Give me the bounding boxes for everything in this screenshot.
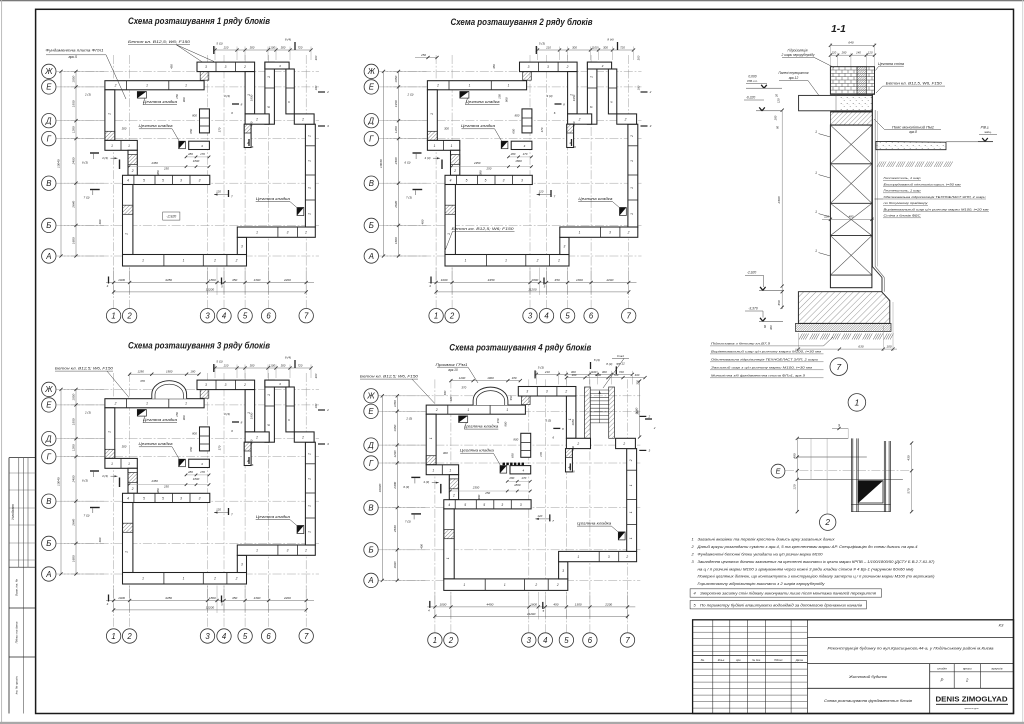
- svg-text:1: 1: [506, 408, 508, 412]
- svg-text:1950: 1950: [72, 418, 76, 425]
- svg-text:2: 2: [630, 135, 634, 138]
- svg-text:1800: 1800: [193, 159, 200, 163]
- svg-text:6 (3): 6 (3): [403, 485, 409, 489]
- svg-text:5: 5: [162, 497, 164, 501]
- svg-text:150: 150: [497, 94, 501, 99]
- svg-text:Вирівнювальний шар ц/п розчину: Вирівнювальний шар ц/п розчину марки М10…: [884, 207, 990, 211]
- svg-text:300: 300: [444, 126, 449, 130]
- svg-text:арк.12: арк.12: [789, 76, 799, 80]
- svg-text:2640: 2640: [72, 519, 76, 527]
- svg-text:2: 2: [453, 169, 456, 173]
- svg-text:180: 180: [190, 370, 195, 374]
- svg-text:1: 1: [504, 583, 506, 587]
- svg-text:6: 6: [266, 312, 271, 321]
- svg-text:Е: Е: [368, 407, 374, 416]
- svg-text:5: 5: [466, 179, 468, 183]
- svg-text:аркуш: аркуш: [963, 666, 972, 670]
- svg-text:1: 1: [267, 76, 271, 78]
- svg-text:800: 800: [192, 431, 197, 435]
- svg-text:-3,370: -3,370: [748, 307, 758, 311]
- svg-text:2: 2: [114, 402, 117, 406]
- svg-text:1: 1: [128, 462, 130, 466]
- svg-text:Пояс монолітний Пм1: Пояс монолітний Пм1: [892, 125, 934, 129]
- svg-text:2: 2: [536, 259, 539, 263]
- svg-text:630: 630: [858, 345, 863, 349]
- svg-text:170: 170: [218, 445, 222, 450]
- svg-text:1: 1: [577, 555, 579, 559]
- svg-text:Бетон кл. В12,5; W6; F150: Бетон кл. В12,5; W6; F150: [452, 227, 514, 231]
- svg-text:Цегляна стіна: Цегляна стіна: [878, 62, 904, 66]
- svg-text:720: 720: [298, 363, 303, 367]
- svg-text:Цегляна кладка: Цегляна кладка: [460, 448, 494, 452]
- svg-text:Узгоджено: Узгоджено: [11, 504, 15, 520]
- svg-text:Цегляна кладка: Цегляна кладка: [256, 197, 290, 201]
- svg-text:2: 2: [126, 312, 132, 321]
- svg-text:Б: Б: [46, 539, 51, 548]
- svg-text:3: 3: [546, 390, 548, 394]
- svg-text:720: 720: [620, 45, 625, 49]
- svg-text:380: 380: [478, 170, 482, 175]
- svg-text:4: 4: [544, 312, 549, 321]
- svg-text:210: 210: [544, 370, 550, 374]
- svg-text:1800: 1800: [193, 477, 200, 481]
- svg-text:300: 300: [314, 373, 318, 378]
- svg-text:Поверхні цегляних ділянок, що: Поверхні цегляних ділянок, що контактуют…: [698, 574, 936, 579]
- svg-text:1100: 1100: [269, 45, 276, 49]
- svg-text:2 (3): 2 (3): [84, 92, 91, 96]
- svg-text:3: 3: [564, 245, 566, 249]
- svg-text:Горизонтальну гідроізоляцію ви: Горизонтальну гідроізоляцію виконати з 2…: [698, 581, 826, 586]
- svg-text:180: 180: [314, 85, 318, 90]
- svg-text:4: 4: [222, 632, 227, 641]
- svg-text:1: 1: [183, 259, 185, 263]
- svg-text:1: 1: [463, 583, 465, 587]
- svg-text:А: А: [45, 252, 51, 261]
- svg-text:1000: 1000: [118, 596, 125, 600]
- svg-text:2400: 2400: [394, 157, 398, 165]
- svg-text:Цегляна кладка: Цегляна кладка: [143, 418, 177, 422]
- svg-text:1: 1: [815, 249, 817, 253]
- svg-text:210: 210: [223, 45, 229, 49]
- svg-text:450: 450: [553, 603, 558, 607]
- svg-text:1: 1: [146, 84, 148, 88]
- svg-text:3: 3: [199, 179, 201, 183]
- svg-text:450: 450: [555, 278, 560, 282]
- svg-text:2: 2: [126, 632, 132, 641]
- svg-text:3: 3: [528, 312, 533, 321]
- svg-text:250: 250: [484, 491, 490, 495]
- svg-text:1600: 1600: [393, 561, 397, 568]
- svg-text:1: 1: [111, 632, 115, 641]
- svg-text:Закладення цегляних ділянок за: Закладення цегляних ділянок зазначених н…: [698, 559, 936, 564]
- svg-text:2400: 2400: [777, 196, 781, 204]
- svg-text:300: 300: [122, 444, 127, 448]
- svg-text:3: 3: [287, 231, 289, 235]
- svg-text:720: 720: [614, 373, 619, 377]
- svg-text:арк.8: арк.8: [909, 130, 917, 134]
- svg-text:450: 450: [232, 596, 237, 600]
- svg-text:11200: 11200: [528, 288, 537, 292]
- svg-text:2: 2: [255, 436, 258, 440]
- svg-text:210: 210: [545, 45, 551, 49]
- svg-text:зміщ.: зміщ.: [983, 130, 992, 134]
- svg-text:1600: 1600: [394, 237, 398, 244]
- svg-text:260: 260: [841, 51, 847, 55]
- svg-text:280: 280: [187, 152, 193, 156]
- svg-text:4450: 4450: [165, 278, 172, 282]
- svg-text:300: 300: [443, 451, 448, 455]
- svg-text:1900: 1900: [487, 376, 494, 380]
- svg-text:450: 450: [250, 121, 254, 126]
- svg-text:1: 1: [449, 468, 451, 472]
- svg-text:120: 120: [216, 508, 221, 512]
- svg-text:7: 7: [304, 312, 309, 321]
- svg-text:2: 2: [653, 426, 656, 430]
- svg-text:11200: 11200: [206, 606, 215, 610]
- svg-text:Приямок ГРм1: Приямок ГРм1: [436, 363, 468, 367]
- svg-text:1950: 1950: [250, 94, 254, 101]
- svg-text:1000: 1000: [441, 278, 448, 282]
- svg-text:1: 1: [429, 437, 433, 439]
- svg-text:6: 6: [266, 632, 271, 641]
- svg-text:1200: 1200: [393, 450, 397, 457]
- svg-text:2: 2: [114, 84, 117, 88]
- svg-text:2: 2: [534, 583, 537, 587]
- svg-text:1: 1: [629, 537, 633, 539]
- svg-text:1: 1: [432, 468, 434, 472]
- svg-text:2: 2: [235, 259, 238, 263]
- svg-text:2 (3): 2 (3): [405, 417, 412, 421]
- svg-text:170: 170: [200, 152, 205, 156]
- svg-text:300: 300: [572, 373, 577, 377]
- svg-text:Житловий будинок: Житловий будинок: [848, 674, 888, 679]
- svg-text:450: 450: [571, 446, 575, 451]
- svg-text:2: 2: [624, 118, 627, 122]
- svg-text:Бетон кл. В12,5; W6; F150: Бетон кл. В12,5; W6; F150: [128, 40, 190, 44]
- svg-text:400: 400: [419, 544, 423, 549]
- svg-text:Загальні вказівки та перелік к: Загальні вказівки та перелік креслень ди…: [698, 537, 836, 542]
- svg-text:1: 1: [629, 484, 633, 486]
- svg-text:Бетон кл. В12,5; W6, F150: Бетон кл. В12,5; W6, F150: [55, 367, 113, 371]
- svg-text:9: 9: [838, 424, 840, 428]
- svg-text:120: 120: [449, 396, 453, 401]
- svg-text:1200: 1200: [72, 126, 76, 133]
- svg-text:Ж: Ж: [367, 67, 376, 76]
- svg-text:Зм.: Зм.: [701, 658, 705, 662]
- svg-text:2: 2: [629, 459, 633, 462]
- svg-text:1290: 1290: [137, 370, 144, 374]
- svg-text:150: 150: [496, 418, 500, 423]
- svg-text:2200: 2200: [605, 278, 613, 282]
- svg-text:1: 1: [125, 233, 129, 235]
- svg-text:Геотекстиль, 1 шар: Геотекстиль, 1 шар: [884, 176, 921, 180]
- svg-text:280: 280: [508, 476, 514, 480]
- svg-text:5: 5: [143, 179, 145, 183]
- svg-text:250: 250: [485, 167, 491, 171]
- svg-text:120: 120: [777, 98, 781, 103]
- svg-text:1: 1: [447, 233, 451, 235]
- svg-text:4450: 4450: [488, 278, 495, 282]
- svg-text:480: 480: [443, 390, 447, 395]
- svg-text:3: 3: [547, 65, 549, 69]
- svg-text:2: 2: [131, 169, 134, 173]
- svg-text:Підготовка з бетону кл.В7,5: Підготовка з бетону кл.В7,5: [711, 342, 770, 346]
- svg-text:1: 1: [815, 171, 817, 175]
- svg-text:380: 380: [477, 494, 481, 499]
- svg-text:480: 480: [792, 453, 796, 458]
- svg-text:1: 1: [815, 210, 817, 214]
- svg-text:проектна група: проектна група: [964, 708, 979, 710]
- svg-text:1: 1: [855, 398, 860, 408]
- svg-text:В: В: [46, 179, 51, 188]
- svg-text:450: 450: [572, 121, 576, 126]
- svg-text:на ц / п розчині марки М100 з: на ц / п розчині марки М100 з армуванням…: [698, 566, 915, 571]
- svg-text:1: 1: [505, 259, 507, 263]
- svg-text:1: 1: [467, 408, 469, 412]
- svg-text:720: 720: [298, 45, 303, 49]
- svg-text:Б: Б: [369, 221, 374, 230]
- svg-text:В: В: [369, 179, 374, 188]
- svg-text:2: 2: [564, 390, 567, 394]
- svg-text:1: 1: [142, 259, 144, 263]
- svg-text:800: 800: [192, 113, 197, 117]
- svg-text:8 (4): 8 (4): [285, 356, 291, 360]
- svg-text:2: 2: [301, 436, 304, 440]
- svg-text:1000: 1000: [118, 278, 125, 282]
- svg-text:Г: Г: [369, 134, 374, 143]
- svg-text:720: 720: [619, 370, 624, 374]
- svg-text:170: 170: [218, 127, 222, 132]
- svg-text:2: 2: [243, 65, 246, 69]
- svg-text:2: 2: [649, 90, 652, 94]
- svg-text:1600: 1600: [72, 555, 76, 562]
- svg-text:2: 2: [449, 312, 455, 321]
- svg-text:450: 450: [232, 278, 237, 282]
- svg-text:170: 170: [523, 152, 528, 156]
- svg-text:Реконструкція будинку по вул.К: Реконструкція будинку по вул.Красицького…: [828, 647, 994, 651]
- svg-text:1900: 1900: [166, 370, 173, 374]
- svg-text:стадія: стадія: [937, 666, 947, 670]
- svg-text:1050: 1050: [72, 75, 76, 82]
- svg-text:3: 3: [520, 503, 522, 507]
- svg-text:Стіна з блоків ФБС: Стіна з блоків ФБС: [884, 214, 922, 218]
- svg-text:10040: 10040: [379, 159, 383, 168]
- svg-text:2400: 2400: [393, 482, 397, 490]
- svg-text:3: 3: [528, 65, 530, 69]
- svg-text:А: А: [368, 252, 374, 261]
- svg-text:11200: 11200: [527, 612, 536, 616]
- svg-text:1: 1: [815, 130, 817, 134]
- svg-text:1000: 1000: [439, 603, 446, 607]
- svg-text:Геотекстиль, 1 шар: Геотекстиль, 1 шар: [884, 189, 921, 193]
- svg-text:1800: 1800: [515, 159, 522, 163]
- svg-text:6: 6: [267, 424, 271, 426]
- svg-text:480: 480: [849, 215, 854, 219]
- svg-text:300: 300: [122, 126, 127, 130]
- svg-text:2350: 2350: [150, 479, 158, 483]
- svg-text:4 (3): 4 (3): [423, 480, 429, 484]
- svg-text:2: 2: [301, 118, 304, 122]
- svg-text:№ док.: № док.: [752, 658, 761, 662]
- svg-text:7 (3): 7 (3): [84, 513, 90, 517]
- svg-text:-2,920: -2,920: [747, 270, 757, 274]
- svg-text:120: 120: [539, 190, 544, 194]
- svg-text:180: 180: [637, 85, 641, 90]
- svg-text:1-1: 1-1: [831, 24, 846, 35]
- svg-text:4: 4: [127, 179, 129, 183]
- svg-text:Обклеювальна гідроізоляція ТЕХ: Обклеювальна гідроізоляція ТЕХНОЕЛАСТ ЭП…: [711, 358, 818, 362]
- svg-text:По периметру будівлі влаштуват: По периметру будівлі влаштувати водовідв…: [700, 602, 862, 607]
- svg-text:900: 900: [503, 421, 507, 426]
- svg-text:1100: 1100: [595, 373, 601, 377]
- svg-text:Кільк.: Кільк.: [718, 658, 725, 662]
- svg-text:2: 2: [436, 84, 439, 88]
- svg-text:3: 3: [287, 549, 289, 553]
- svg-text:900: 900: [505, 97, 509, 102]
- svg-text:2400: 2400: [72, 157, 76, 165]
- svg-text:300: 300: [314, 55, 318, 60]
- svg-text:Д: Д: [367, 441, 374, 450]
- svg-text:2350: 2350: [150, 161, 158, 165]
- svg-text:450: 450: [492, 64, 496, 69]
- svg-text:2640: 2640: [393, 525, 397, 533]
- svg-text:Цегляна кладка: Цегляна кладка: [139, 442, 173, 446]
- svg-text:2: 2: [557, 259, 560, 263]
- svg-text:8 (4): 8 (4): [594, 358, 600, 362]
- svg-text:А: А: [45, 570, 51, 579]
- svg-text:300: 300: [281, 363, 286, 367]
- svg-text:380: 380: [156, 488, 160, 493]
- svg-text:5: 5: [565, 312, 570, 321]
- svg-text:Д: Д: [368, 117, 375, 126]
- svg-text:Бетон кл. В12,5; W6, F150: Бетон кл. В12,5; W6, F150: [360, 375, 418, 379]
- svg-text:5: 5: [243, 632, 248, 641]
- svg-text:400: 400: [635, 373, 640, 377]
- svg-text:2: 2: [308, 453, 312, 456]
- svg-text:Підпис та дата: Підпис та дата: [15, 621, 19, 643]
- svg-text:1: 1: [111, 312, 115, 321]
- svg-text:1: 1: [142, 577, 144, 581]
- svg-text:3: 3: [241, 563, 243, 567]
- svg-text:Бетон кл. В12,5, W6, F150: Бетон кл. В12,5, W6, F150: [886, 82, 942, 86]
- svg-text:В: В: [368, 503, 373, 512]
- svg-text:6 (3): 6 (3): [82, 479, 88, 483]
- svg-text:Обклеювальна гідроізоляція ТЕХ: Обклеювальна гідроізоляція ТЕХНОЕЛАСТ ЭП…: [884, 195, 986, 199]
- svg-text:-2,920: -2,920: [166, 214, 176, 218]
- svg-text:Дата: Дата: [795, 658, 804, 662]
- svg-text:2640: 2640: [72, 201, 76, 209]
- svg-text:1950: 1950: [572, 94, 576, 101]
- svg-text:4 (3): 4 (3): [102, 474, 108, 478]
- svg-text:4450: 4450: [165, 596, 172, 600]
- svg-text:5 (3): 5 (3): [538, 366, 544, 370]
- svg-text:3: 3: [608, 555, 610, 559]
- svg-text:170: 170: [539, 452, 543, 457]
- svg-text:Цегляна кладка: Цегляна кладка: [256, 515, 290, 519]
- svg-text:120: 120: [868, 51, 873, 55]
- svg-text:5: 5: [485, 179, 487, 183]
- svg-text:1: 1: [185, 402, 187, 406]
- svg-text:1800: 1800: [514, 483, 521, 487]
- svg-text:2: 2: [435, 408, 438, 412]
- svg-text:7: 7: [625, 636, 630, 645]
- svg-text:1: 1: [630, 187, 634, 189]
- svg-text:0,000: 0,000: [748, 75, 756, 79]
- svg-text:1: 1: [451, 144, 453, 148]
- svg-text:1: 1: [183, 577, 185, 581]
- svg-text:1800: 1800: [530, 603, 537, 607]
- svg-text:Е: Е: [369, 83, 375, 92]
- svg-text:1100: 1100: [269, 363, 276, 367]
- svg-text:Е: Е: [46, 401, 52, 410]
- svg-text:6: 6: [267, 106, 271, 108]
- svg-text:1: 1: [111, 462, 113, 466]
- svg-text:170: 170: [200, 470, 205, 474]
- svg-text:1: 1: [308, 187, 312, 189]
- svg-text:300: 300: [602, 370, 607, 374]
- svg-text:6 (3): 6 (3): [405, 161, 411, 165]
- svg-text:1: 1: [433, 636, 437, 645]
- svg-text:3: 3: [225, 65, 227, 69]
- svg-text:1300: 1300: [253, 278, 260, 282]
- svg-text:1: 1: [108, 431, 112, 433]
- svg-text:Д: Д: [45, 117, 52, 126]
- svg-text:2: 2: [556, 583, 559, 587]
- svg-text:2: 2: [213, 259, 216, 263]
- svg-text:120: 120: [831, 51, 836, 55]
- svg-text:1300: 1300: [575, 603, 582, 607]
- svg-text:3: 3: [205, 632, 210, 641]
- svg-text:арк.12: арк.12: [616, 362, 625, 366]
- svg-text:1600: 1600: [72, 237, 76, 244]
- svg-text:РІВ.з.: РІВ.з.: [981, 126, 990, 130]
- svg-text:Схема розташування 3 ряду блок: Схема розташування 3 ряду блоків: [128, 341, 271, 351]
- svg-text:-0,320: -0,320: [746, 96, 756, 100]
- svg-text:3 (3): 3 (3): [545, 418, 551, 422]
- svg-text:2: 2: [647, 415, 650, 419]
- svg-text:650: 650: [510, 453, 514, 458]
- svg-text:аркушів: аркушів: [991, 666, 1002, 670]
- svg-text:2: 2: [304, 549, 307, 553]
- svg-text:120: 120: [537, 514, 542, 518]
- svg-text:2: 2: [326, 408, 329, 412]
- svg-text:2: 2: [448, 636, 454, 645]
- svg-text:1: 1: [146, 402, 148, 406]
- svg-text:6: 6: [589, 312, 594, 321]
- svg-text:80: 80: [776, 126, 780, 129]
- svg-text:Вирівнювальний шар ц/п розчину: Вирівнювальний шар ц/п розчину марки М10…: [711, 350, 822, 354]
- svg-text:3: 3: [205, 65, 207, 69]
- svg-text:1: 1: [308, 213, 312, 215]
- svg-text:1: 1: [630, 213, 634, 215]
- svg-text:2200: 2200: [283, 278, 291, 282]
- svg-text:430: 430: [907, 455, 911, 460]
- svg-text:7 (3): 7 (3): [84, 195, 90, 199]
- svg-text:по бітумному праймеру: по бітумному праймеру: [884, 201, 929, 205]
- svg-text:900: 900: [182, 415, 186, 420]
- svg-text:250: 250: [420, 53, 426, 57]
- svg-text:3 (3): 3 (3): [224, 94, 230, 98]
- svg-text:2640: 2640: [394, 201, 398, 209]
- svg-text:Г: Г: [47, 452, 52, 461]
- svg-text:4 (3): 4 (3): [425, 156, 431, 160]
- svg-text:Цегляна кладка: Цегляна кладка: [578, 197, 612, 201]
- svg-text:2 (3): 2 (3): [84, 410, 91, 414]
- svg-text:4450: 4450: [486, 603, 493, 607]
- svg-text:6 (3): 6 (3): [82, 161, 88, 165]
- svg-text:2: 2: [622, 442, 625, 446]
- svg-text:3: 3: [527, 636, 532, 645]
